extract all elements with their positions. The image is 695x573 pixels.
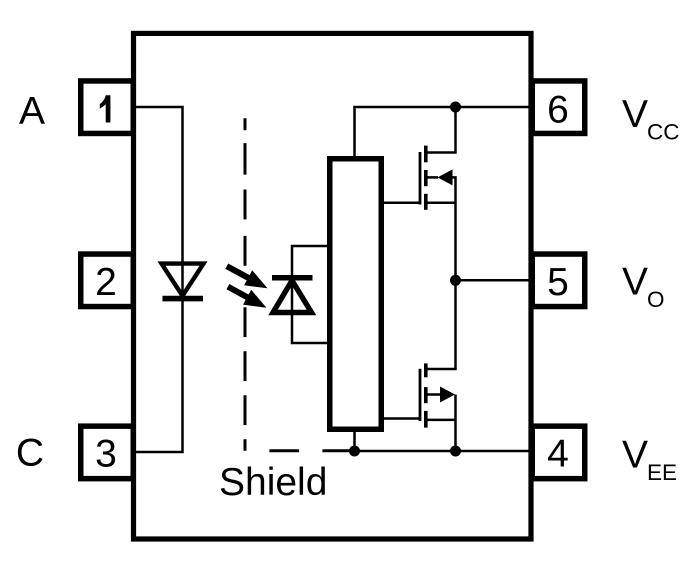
svg-text:CC: CC <box>647 120 680 145</box>
svg-text:3: 3 <box>95 433 117 476</box>
svg-text:EE: EE <box>647 460 677 485</box>
pin 3 box <box>81 426 134 479</box>
Q2 source wire <box>427 419 456 422</box>
amplifier block U1 <box>330 159 382 430</box>
svg-text:O: O <box>647 287 665 312</box>
wire block bottom to VEE rail <box>353 431 356 451</box>
svg-text:V: V <box>622 434 648 477</box>
pin 1 box <box>81 81 134 134</box>
Q1 gate wire from block <box>384 202 420 205</box>
Q2 body stub <box>427 393 441 396</box>
wire block top to VCC rail <box>353 107 356 158</box>
svg-text:V: V <box>622 261 648 304</box>
LED D1 triangle <box>162 264 204 296</box>
output node dot <box>450 275 461 286</box>
pin 6 box <box>532 81 585 134</box>
light arrow 2 <box>228 287 267 308</box>
Q1 source wire from VCC <box>427 107 456 153</box>
svg-text:C: C <box>16 432 44 475</box>
shield dashed line <box>245 118 350 451</box>
Q1 body/drain vertical to output <box>452 177 456 280</box>
Q2 drain wire from output <box>427 280 456 369</box>
label VCC <box>622 93 680 145</box>
pin 4 box <box>532 426 585 479</box>
Q2 channel segments <box>424 363 428 427</box>
svg-text:Shield: Shield <box>219 461 327 504</box>
VEE rail wire to pin 4 <box>352 450 530 453</box>
label VEE <box>622 434 677 486</box>
Q2 gate wire from block <box>384 417 420 420</box>
photodiode D2 triangle <box>273 281 312 313</box>
output wire to pin 5 <box>456 279 531 282</box>
Q1 gate bar <box>419 152 422 205</box>
Q1 body stub <box>427 176 438 179</box>
Q2 body vertical to VEE <box>454 395 457 452</box>
LED D1 cathode bar <box>163 296 204 302</box>
junction dot shield/block at VEE <box>349 446 360 457</box>
svg-text:6: 6 <box>547 89 569 132</box>
svg-text:2: 2 <box>95 261 117 304</box>
VCC rail wire to pin 6 <box>353 106 530 109</box>
label A (anode) <box>19 90 45 133</box>
junction dot VCC node <box>450 102 461 113</box>
photodiode cathode wire to block <box>292 246 327 278</box>
Q2 body arrow <box>440 387 455 403</box>
photodiode anode wire to block <box>292 278 327 343</box>
Q2 gate bar <box>419 369 422 421</box>
svg-text:A: A <box>19 90 45 133</box>
wire pin1 through LED to pin3 <box>133 107 183 452</box>
svg-text:V: V <box>622 93 648 136</box>
label Shield <box>219 461 327 504</box>
Q1 body arrow <box>438 169 453 185</box>
light arrow 1 <box>227 266 268 288</box>
label C (cathode) <box>16 432 44 475</box>
Q1 channel segments <box>424 146 428 210</box>
junction dot Q2 source at VEE <box>450 446 461 457</box>
svg-text:4: 4 <box>547 433 569 476</box>
pin 2 box <box>81 254 134 306</box>
photodiode cathode bar <box>272 275 313 281</box>
package outline <box>134 33 532 539</box>
Q1 drain wire <box>427 202 456 205</box>
label VO <box>622 261 665 313</box>
svg-text:5: 5 <box>547 261 569 304</box>
pin 5 box <box>532 254 585 306</box>
